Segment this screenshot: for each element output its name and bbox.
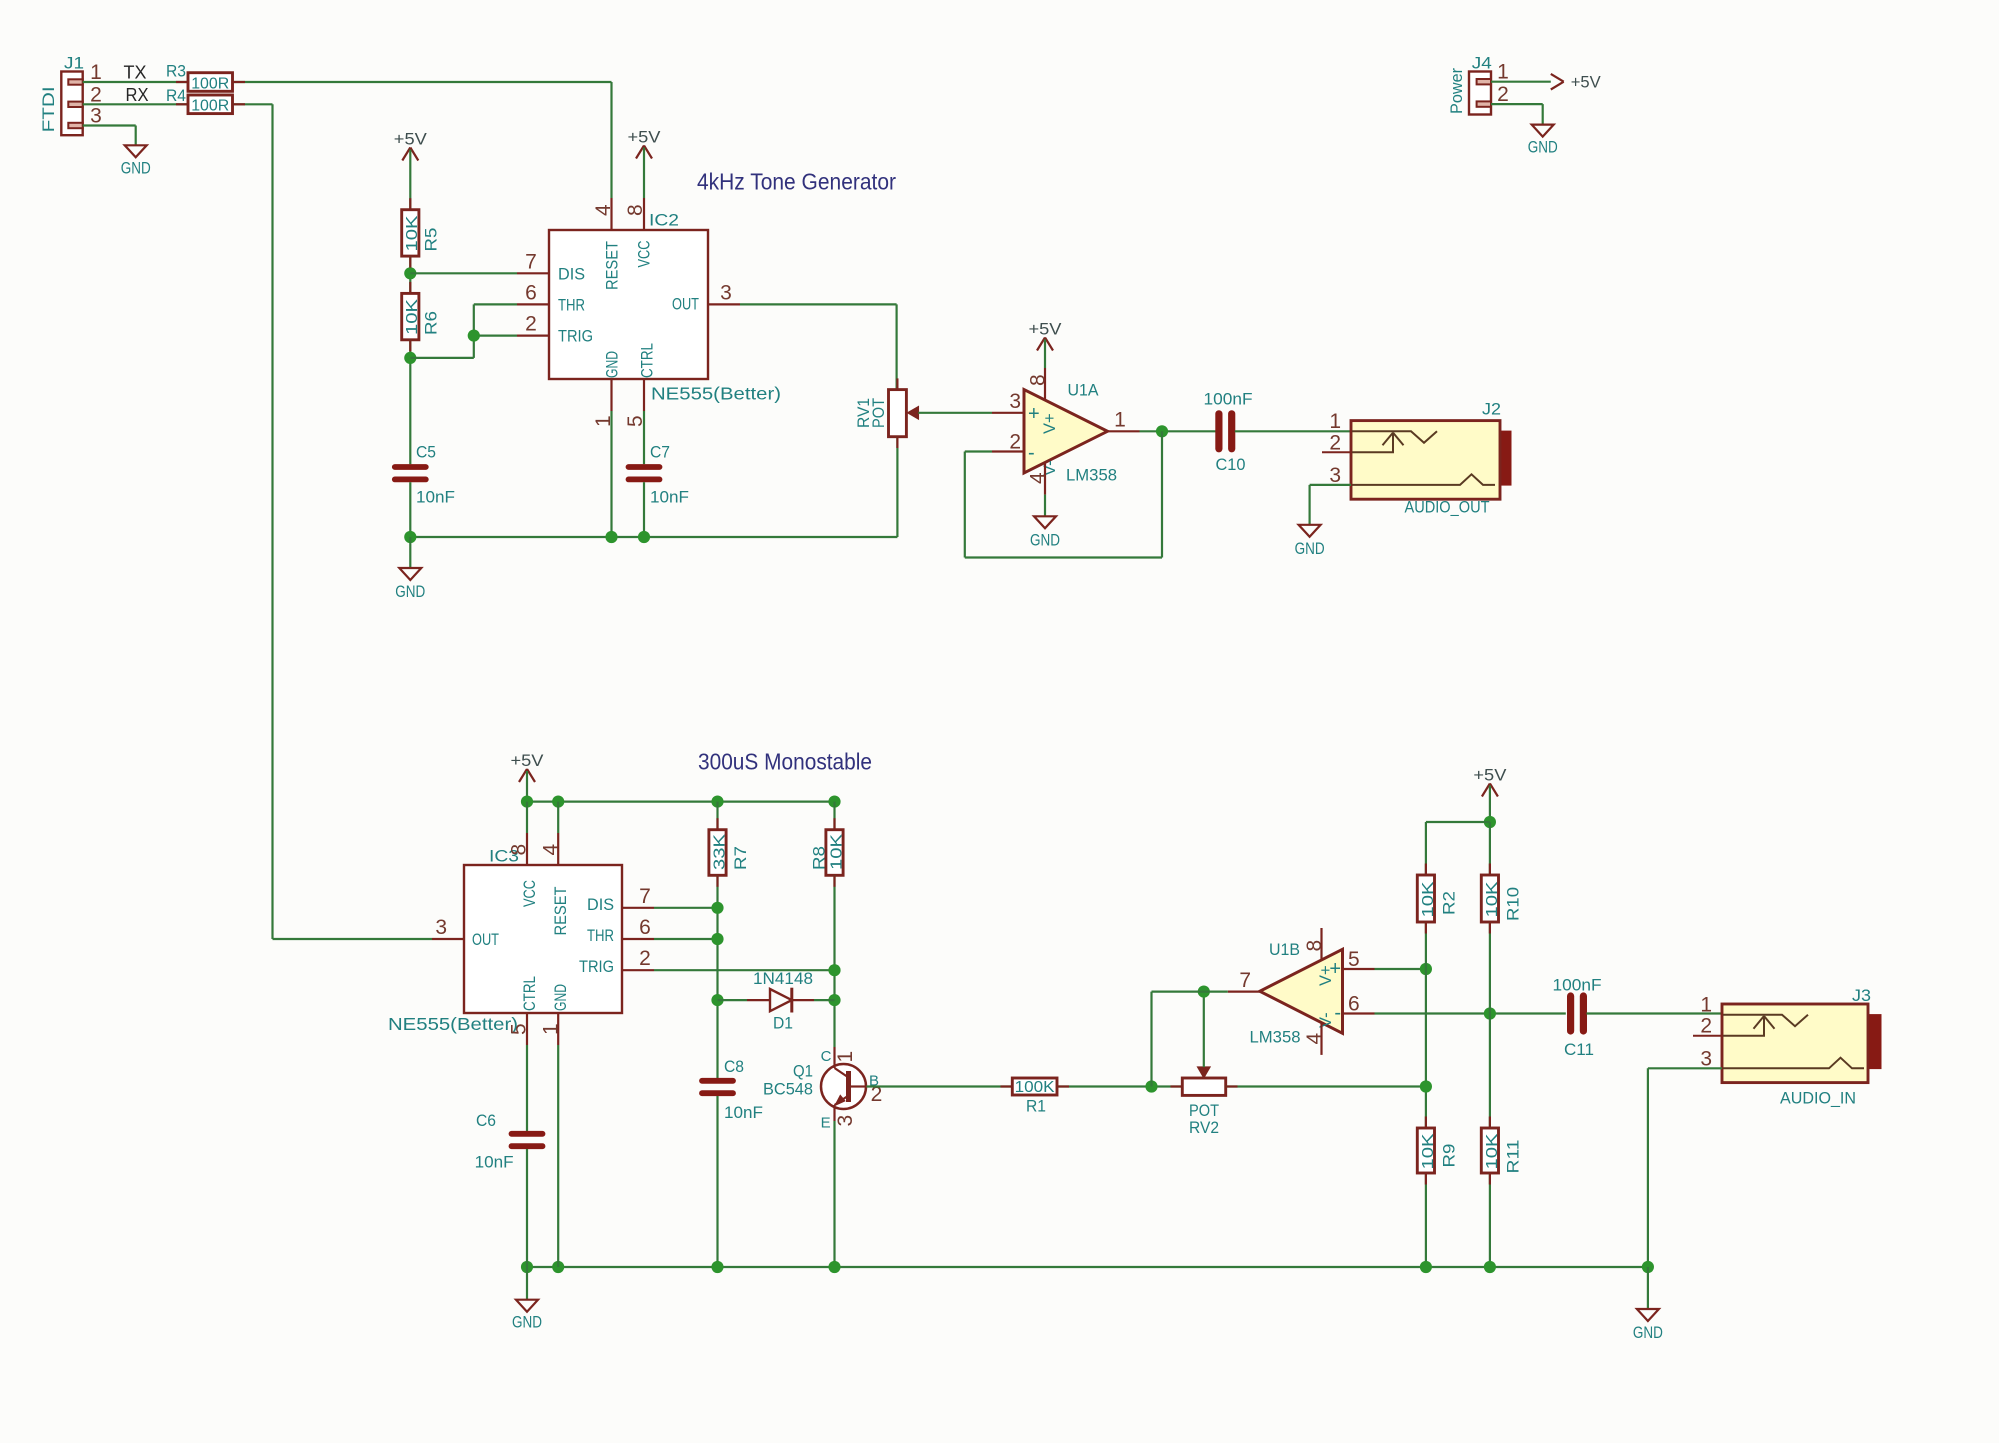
wire junction to DIS pin7 <box>410 272 517 274</box>
wire Q1 emitter to rail <box>833 1121 835 1267</box>
op-amp U1A LM358 <box>992 368 1140 495</box>
svg-text:10nF: 10nF <box>724 1103 763 1122</box>
svg-text:10nF: 10nF <box>475 1153 514 1172</box>
wire R9 to rail <box>1425 1173 1427 1267</box>
wire IC3 TRIG to R8 node <box>654 969 835 971</box>
wire RV2 wiper to U1B output net <box>1203 992 1205 1068</box>
svg-text:GND: GND <box>603 351 621 378</box>
svg-text:8: 8 <box>507 844 530 856</box>
ground symbol below J2 <box>1299 525 1321 537</box>
svg-text:3: 3 <box>90 105 102 128</box>
wire THR/TRIG tie <box>410 357 474 359</box>
svg-text:100nF: 100nF <box>1553 976 1602 995</box>
svg-text:4: 4 <box>592 204 615 216</box>
svg-text:1: 1 <box>1114 408 1126 431</box>
wire J4 pin2 to ground <box>1491 103 1543 105</box>
svg-text:R2: R2 <box>1440 891 1459 915</box>
svg-text:2: 2 <box>1329 431 1341 454</box>
power +5V symbol monostable <box>511 751 545 802</box>
svg-text:NE555(Better): NE555(Better) <box>388 1014 518 1034</box>
svg-text:OUT: OUT <box>672 296 699 314</box>
svg-text:RESET: RESET <box>603 241 621 290</box>
svg-text:GND: GND <box>1030 530 1060 549</box>
svg-text:2: 2 <box>525 313 537 336</box>
svg-text:4: 4 <box>1303 1033 1326 1045</box>
svg-text:3: 3 <box>834 1115 857 1127</box>
wire C8 to rail <box>716 1096 718 1267</box>
power +5V symbol above U1A <box>1029 320 1063 369</box>
svg-text:7: 7 <box>1239 969 1251 992</box>
svg-text:AUDIO_IN: AUDIO_IN <box>1780 1089 1856 1108</box>
svg-text:VCC: VCC <box>636 240 654 267</box>
svg-text:+5V: +5V <box>1473 766 1507 785</box>
svg-text:+5V: +5V <box>1029 320 1063 339</box>
svg-text:10K: 10K <box>404 215 421 251</box>
wire TX net <box>83 81 188 83</box>
wire IC3 CTRL to C6 <box>526 1045 528 1131</box>
svg-text:THR: THR <box>587 927 614 945</box>
diode D1 1N4148 <box>718 969 835 1033</box>
capacitor C7 10nF <box>629 443 690 507</box>
svg-text:FTDI: FTDI <box>39 86 58 132</box>
wire RV2 right to R2/R9 node <box>1226 1085 1426 1087</box>
svg-text:U1A: U1A <box>1068 380 1100 399</box>
svg-text:DIS: DIS <box>558 265 585 283</box>
junction RV2 wiper <box>1198 986 1210 998</box>
wire U1A output to C10 <box>1140 430 1216 432</box>
svg-text:1N4148: 1N4148 <box>753 969 813 988</box>
wire C6 to rail <box>526 1149 528 1267</box>
svg-text:2: 2 <box>90 83 102 106</box>
capacitor C8 10nF <box>702 1057 763 1122</box>
svg-text:VCC: VCC <box>521 880 539 907</box>
wire J2 pin3 to ground <box>1310 484 1351 486</box>
svg-text:2: 2 <box>1497 83 1509 106</box>
svg-text:10K: 10K <box>404 299 421 335</box>
svg-text:R6: R6 <box>422 311 441 335</box>
svg-text:100nF: 100nF <box>1204 390 1253 409</box>
svg-text:CTRL: CTRL <box>638 343 656 378</box>
junction pin5/divider <box>1420 963 1432 975</box>
svg-text:R8: R8 <box>810 846 829 870</box>
svg-text:300uS Monostable: 300uS Monostable <box>698 749 872 775</box>
junction +5V node <box>1484 816 1496 828</box>
svg-text:+5V: +5V <box>511 751 545 770</box>
svg-text:R9: R9 <box>1440 1144 1459 1168</box>
svg-text:C10: C10 <box>1216 455 1246 474</box>
resistor R10 10K <box>1481 875 1522 922</box>
connector J2 AUDIO_OUT jack <box>1322 400 1512 517</box>
power +5V symbol above R5 <box>394 130 428 210</box>
svg-text:C8: C8 <box>724 1057 744 1076</box>
svg-text:J1: J1 <box>64 54 84 73</box>
ground symbol at J4 <box>1532 125 1554 137</box>
svg-text:R4: R4 <box>166 86 186 105</box>
ground symbol below monostable right <box>1637 1309 1659 1321</box>
svg-text:POT: POT <box>869 398 888 428</box>
svg-text:-: - <box>1028 442 1035 464</box>
svg-text:GND: GND <box>512 1313 542 1332</box>
power +5V symbol above IC2 VCC <box>628 128 662 199</box>
wire +5V node to R2 <box>1426 821 1490 823</box>
ground symbol below monostable left <box>516 1300 538 1312</box>
ground symbol at J1 <box>125 145 147 157</box>
wire IC2 GND pin1 to rail <box>610 411 612 537</box>
wire R5 to R6 <box>409 256 411 293</box>
svg-text:RX: RX <box>126 85 149 105</box>
svg-text:3: 3 <box>1009 390 1021 413</box>
resistor R2 10K <box>1417 875 1458 922</box>
wire rail to ground symbol <box>409 537 411 568</box>
wire rail to R8 <box>833 802 835 830</box>
svg-text:1: 1 <box>1329 410 1341 433</box>
svg-text:33K: 33K <box>711 834 728 870</box>
svg-text:J2: J2 <box>1482 400 1501 419</box>
svg-text:J3: J3 <box>1852 986 1871 1005</box>
svg-text:R5: R5 <box>422 228 441 252</box>
capacitor C11 100nF <box>1553 976 1602 1059</box>
svg-text:10nF: 10nF <box>416 487 455 506</box>
svg-text:E: E <box>821 1115 831 1132</box>
svg-text:TRIG: TRIG <box>579 958 614 976</box>
svg-text:IC2: IC2 <box>649 211 679 230</box>
svg-text:10K: 10K <box>1420 881 1437 917</box>
wire +5V rail monostable <box>527 800 835 802</box>
svg-text:+5V: +5V <box>1571 73 1602 92</box>
svg-text:6: 6 <box>1348 993 1360 1016</box>
svg-text:C11: C11 <box>1564 1040 1594 1059</box>
svg-text:+: + <box>1028 403 1040 425</box>
wire R10 down through pin6 node to R11 <box>1489 922 1491 1128</box>
svg-text:GND: GND <box>121 158 151 177</box>
svg-text:CTRL: CTRL <box>521 976 539 1011</box>
wire C10 to J2 pin1 <box>1235 430 1351 432</box>
ground symbol below U1A <box>1034 516 1056 528</box>
svg-text:R7: R7 <box>731 846 750 870</box>
svg-text:C6: C6 <box>476 1111 496 1130</box>
svg-text:6: 6 <box>525 281 537 304</box>
wire rail to R7 <box>716 802 718 830</box>
svg-text:10K: 10K <box>1484 1133 1501 1169</box>
svg-text:LM358: LM358 <box>1250 1028 1301 1047</box>
wire RX to IC3 OUT pin3 <box>233 103 273 105</box>
wire IC3 GND pin1 to rail <box>557 1045 559 1267</box>
op-amp U1B LM358 <box>1228 928 1375 1055</box>
wire J1 pin3 to ground <box>83 124 136 126</box>
svg-text:1: 1 <box>1497 61 1509 84</box>
wire U1B pin6 to C11 <box>1375 1012 1566 1014</box>
svg-text:6: 6 <box>639 916 651 939</box>
junction R1/RV2/U1B-out <box>1145 1080 1157 1092</box>
svg-text:100R: 100R <box>191 75 229 92</box>
svg-text:7: 7 <box>639 885 651 908</box>
wire R1 to RV2 <box>1057 1085 1182 1087</box>
svg-text:10K: 10K <box>828 834 845 870</box>
svg-text:10nF: 10nF <box>650 487 689 506</box>
svg-text:NE555(Better): NE555(Better) <box>651 384 781 404</box>
power +5V symbol at J4 (right-pointing) <box>1551 73 1602 92</box>
wire C7 to rail <box>643 482 645 537</box>
junction R6/C5 node to THR-TRIG branch <box>404 352 416 364</box>
svg-text:DIS: DIS <box>587 896 614 914</box>
resistor R3 100R <box>166 61 233 92</box>
wire R2 down through pin5 and RV2 nodes to R9 <box>1425 922 1427 1128</box>
svg-text:V+: V+ <box>1041 413 1059 434</box>
svg-text:GND: GND <box>1633 1323 1663 1342</box>
wire R8 down through TRIG to D1 cathode / Q1 collector <box>833 875 835 1047</box>
svg-text:1: 1 <box>834 1051 857 1063</box>
wire IC3 THR to R7 node <box>654 938 718 940</box>
svg-text:R10: R10 <box>1504 887 1523 921</box>
junction pin6/divider2 <box>1484 1007 1496 1019</box>
capacitor C6 10nF <box>475 1111 543 1172</box>
svg-text:R1: R1 <box>1026 1097 1046 1116</box>
capacitor C10 100nF <box>1204 390 1253 475</box>
svg-text:-: - <box>1334 1002 1341 1024</box>
svg-text:J4: J4 <box>1472 54 1492 73</box>
svg-text:V-: V- <box>1317 1012 1335 1028</box>
resistor R6 10K <box>402 293 441 339</box>
svg-text:10K: 10K <box>1484 881 1501 917</box>
svg-text:RV2: RV2 <box>1189 1118 1219 1137</box>
svg-text:100K: 100K <box>1015 1079 1055 1096</box>
resistor R4 100R <box>166 86 233 115</box>
capacitor C5 10nF <box>395 443 455 507</box>
svg-text:3: 3 <box>720 281 732 304</box>
junction U1A output/feedback <box>1156 425 1168 437</box>
svg-text:U1B: U1B <box>1269 940 1300 959</box>
resistor R8 10K <box>810 830 846 876</box>
ground symbol below C5 <box>399 568 421 580</box>
ground rail of tone generator <box>410 536 897 538</box>
wire RV1 wiper to U1A +input <box>918 412 992 414</box>
connector J1 (FTDI) <box>39 54 102 136</box>
svg-text:GND: GND <box>1295 539 1325 558</box>
svg-text:100R: 100R <box>191 98 229 115</box>
svg-text:4: 4 <box>1027 472 1050 484</box>
svg-text:8: 8 <box>1303 940 1326 952</box>
svg-text:+5V: +5V <box>394 130 428 149</box>
svg-text:3: 3 <box>435 916 447 939</box>
wire J4 pin1 to +5V <box>1491 81 1551 83</box>
svg-text:C7: C7 <box>650 443 670 462</box>
wire IC2 OUT to RV1 <box>740 303 897 305</box>
svg-text:OUT: OUT <box>472 931 499 949</box>
svg-text:GND: GND <box>395 582 425 601</box>
resistor R7 33K <box>709 830 750 876</box>
svg-text:4kHz Tone Generator: 4kHz Tone Generator <box>697 169 896 195</box>
svg-text:7: 7 <box>525 250 537 273</box>
wire U1B pin5 to divider <box>1375 968 1426 970</box>
svg-text:TX: TX <box>124 63 147 83</box>
wire rail to IC3 RESET <box>557 802 559 833</box>
wire Q1 base to R1 <box>867 1085 1013 1087</box>
resistor R1 100K <box>1012 1078 1057 1116</box>
wire +5V node to R10 <box>1489 822 1491 875</box>
wire C5 to ground rail <box>409 482 411 537</box>
svg-text:AUDIO_OUT: AUDIO_OUT <box>1405 498 1490 517</box>
power +5V symbol right divider <box>1473 766 1507 823</box>
svg-text:BC548: BC548 <box>763 1080 813 1099</box>
wire TX to IC2 RESET pin4 <box>233 81 612 83</box>
wire R7 down through DIS/THR to D1/C8 <box>716 875 718 1078</box>
svg-text:8: 8 <box>1027 374 1050 386</box>
connector J3 AUDIO_IN jack <box>1693 986 1882 1108</box>
wire rail to IC3 VCC <box>526 802 528 833</box>
potentiometer RV2 <box>1182 1067 1225 1137</box>
wire C11 to J3 pin1 <box>1587 1012 1723 1014</box>
potentiometer RV1 <box>854 390 918 437</box>
wire J3 pin3 to rail <box>1648 1067 1722 1069</box>
svg-text:D1: D1 <box>773 1014 793 1033</box>
wire R6 to C5 <box>409 340 411 464</box>
wire RV1 bottom to rail <box>896 437 898 537</box>
IC IC2 NE555 <box>517 198 781 427</box>
wire IC3 DIS to R7 node <box>654 907 718 909</box>
junction TRIG tie <box>468 330 480 342</box>
svg-text:3: 3 <box>1700 1047 1712 1070</box>
svg-text:LM358: LM358 <box>1066 465 1117 484</box>
svg-text:Q1: Q1 <box>793 1062 813 1081</box>
wire U1A feedback loop <box>965 450 992 452</box>
svg-text:1: 1 <box>1700 993 1712 1016</box>
wire U1B output left <box>1152 990 1228 992</box>
svg-text:GND: GND <box>552 984 570 1011</box>
svg-text:3: 3 <box>1329 464 1341 487</box>
resistor R9 10K <box>1417 1128 1458 1173</box>
svg-text:4: 4 <box>540 844 563 856</box>
resistor R5 10K <box>402 210 441 256</box>
ground rail of monostable <box>527 1266 1648 1268</box>
wire U1A pin4 to ground <box>1044 495 1046 517</box>
resistor R11 10K <box>1481 1128 1522 1174</box>
wire junction up to U1B output <box>1150 992 1152 1087</box>
svg-text:V+: V+ <box>1317 965 1335 986</box>
svg-text:2: 2 <box>639 947 651 970</box>
svg-text:R11: R11 <box>1504 1140 1523 1174</box>
svg-text:+5V: +5V <box>628 128 662 147</box>
wire IC2 CTRL pin5 to C7 <box>643 411 645 464</box>
junction R5/R6/DIS <box>404 267 416 279</box>
svg-text:RESET: RESET <box>552 887 570 936</box>
svg-text:2: 2 <box>1700 1015 1712 1038</box>
svg-text:GND: GND <box>1528 138 1558 157</box>
svg-text:Power: Power <box>1447 68 1466 114</box>
svg-text:8: 8 <box>624 204 647 216</box>
IC IC3 NE555 <box>388 833 654 1045</box>
connector J4 (Power) <box>1447 54 1509 115</box>
svg-text:TRIG: TRIG <box>558 328 593 346</box>
svg-text:1: 1 <box>540 1023 563 1035</box>
svg-text:C: C <box>821 1048 832 1065</box>
transistor Q1 BC548 <box>763 1047 882 1132</box>
resistor pin stubs (maroon) <box>176 82 1490 1185</box>
svg-text:5: 5 <box>507 1023 530 1035</box>
svg-text:5: 5 <box>1348 948 1360 971</box>
svg-text:1: 1 <box>90 61 102 84</box>
wire rail to ground symbol left <box>526 1267 528 1300</box>
svg-text:10K: 10K <box>1420 1133 1437 1169</box>
svg-text:R3: R3 <box>166 61 186 80</box>
wire R11 to rail <box>1489 1173 1491 1267</box>
svg-text:THR: THR <box>558 297 585 315</box>
wire rail to ground symbol right <box>1647 1267 1649 1309</box>
svg-text:C5: C5 <box>416 443 436 462</box>
wire RX net <box>83 103 188 105</box>
svg-text:2: 2 <box>1009 431 1021 454</box>
